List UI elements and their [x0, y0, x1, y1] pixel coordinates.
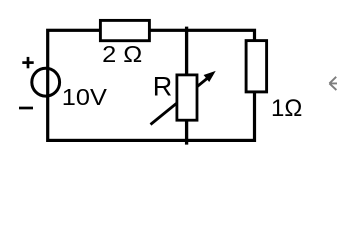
variable resistor R arrowhead	[204, 71, 216, 82]
variable resistor R arrow shaft	[151, 75, 213, 125]
wire: outer loop (top, left, right, bottom)	[48, 30, 255, 140]
cursor: gray left arrow at right edge	[329, 77, 337, 90]
resistor 1ohm body	[246, 41, 267, 92]
variable resistor R body	[177, 75, 197, 120]
voltage source V1 value label 10V	[62, 84, 107, 110]
svg-text:1Ω: 1Ω	[271, 95, 302, 122]
resistor 1ohm value label	[271, 95, 302, 122]
voltage source V1 plus terminal	[22, 57, 33, 68]
svg-text:2 Ω: 2 Ω	[102, 41, 142, 67]
voltage source V1 minus terminal	[19, 107, 33, 110]
resistor 2ohm value label	[102, 41, 142, 67]
svg-text:R: R	[153, 72, 173, 102]
resistor 2ohm body	[100, 20, 149, 40]
variable resistor R designator label	[153, 72, 173, 102]
voltage source V1 circle	[32, 68, 60, 96]
svg-text:10V: 10V	[62, 84, 107, 110]
wire: middle branch	[185, 27, 188, 145]
